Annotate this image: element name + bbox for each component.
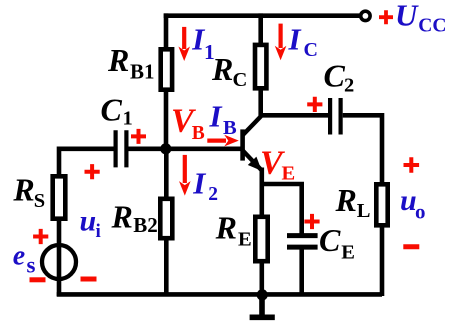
svg-text:R: R bbox=[107, 42, 129, 78]
wire input: C1 left plate to left corner and down to RS bbox=[59, 147, 114, 177]
current arrow IC bbox=[279, 24, 283, 48]
wire left branch: top rail down to RB1 bbox=[164, 13, 169, 50]
svg-text:E: E bbox=[282, 163, 296, 185]
resistor RL bbox=[376, 184, 387, 225]
svg-text:C: C bbox=[319, 222, 341, 258]
wire RL to bottom rail bbox=[380, 226, 385, 297]
transistor Q1 emitter lead bbox=[243, 151, 262, 171]
transistor Q1 collector lead bbox=[243, 116, 261, 135]
plus sign at C2 bbox=[307, 97, 322, 112]
wire RS to es source bbox=[57, 219, 62, 248]
plus sign es top bbox=[33, 229, 48, 244]
current arrow IB bbox=[207, 139, 226, 143]
svg-text:L: L bbox=[357, 200, 371, 222]
wire top rail from RB1 branch to +Ucc terminal bbox=[164, 13, 360, 18]
svg-text:2: 2 bbox=[208, 184, 218, 205]
plus sign uo top bbox=[404, 157, 420, 173]
node B junction dot bbox=[160, 143, 171, 154]
source es circle bbox=[42, 245, 76, 279]
plus sign at CE bbox=[304, 214, 319, 229]
wire node B down to RB2 bbox=[164, 149, 169, 200]
terminal +Ucc circle bbox=[361, 11, 370, 20]
svg-text:E: E bbox=[238, 228, 252, 250]
svg-text:CC: CC bbox=[418, 15, 446, 36]
svg-text:s: s bbox=[27, 253, 36, 278]
svg-text:o: o bbox=[415, 199, 426, 223]
wire RB2 to bottom rail bbox=[164, 238, 169, 296]
svg-text:e: e bbox=[13, 240, 25, 271]
svg-text:C: C bbox=[304, 39, 318, 61]
transistor Q1 base bar bbox=[240, 129, 245, 160]
svg-text:B1: B1 bbox=[130, 60, 155, 84]
capacitor C2 plates bbox=[330, 98, 341, 135]
wire RB1 to node B bbox=[164, 89, 169, 151]
capacitor CE plates bbox=[287, 236, 318, 248]
plus sign ui top bbox=[85, 164, 100, 179]
resistor RB2 bbox=[160, 199, 172, 238]
current arrow I1 bbox=[182, 27, 186, 49]
wire emitter branch down to RE bbox=[259, 184, 264, 216]
plus sign at Ucc bbox=[379, 10, 393, 24]
svg-text:R: R bbox=[215, 209, 237, 245]
wire RE to bottom rail bbox=[259, 262, 264, 297]
svg-text:1: 1 bbox=[204, 40, 215, 64]
svg-text:R: R bbox=[12, 171, 34, 207]
svg-text:C: C bbox=[101, 91, 123, 127]
svg-text:1: 1 bbox=[123, 107, 133, 129]
wire C1 right plate to node B bbox=[129, 147, 167, 152]
wire through es to bottom rail bbox=[57, 246, 62, 296]
minus sign uo bottom bbox=[403, 244, 419, 249]
svg-text:I: I bbox=[288, 22, 302, 57]
svg-text:R: R bbox=[111, 198, 133, 234]
wire RC to collector bbox=[258, 88, 263, 118]
svg-text:i: i bbox=[96, 221, 101, 242]
ground symbol bbox=[250, 294, 275, 318]
svg-text:I: I bbox=[192, 165, 206, 200]
resistor RC bbox=[255, 45, 266, 88]
wire collector to C2 left plate bbox=[259, 113, 329, 118]
wire CE to bottom rail bbox=[299, 249, 304, 297]
plus sign at C1 top bbox=[131, 129, 146, 144]
svg-text:2: 2 bbox=[344, 75, 354, 97]
resistor RS bbox=[53, 176, 66, 218]
capacitor C1 plates bbox=[116, 130, 127, 167]
wire top rail down to RC bbox=[258, 13, 263, 45]
svg-text:I: I bbox=[209, 99, 223, 134]
minus sign ui bottom bbox=[81, 277, 97, 282]
wire bottom rail bbox=[57, 292, 382, 297]
wire base: node B to transistor base bbox=[164, 147, 241, 152]
wire emitter down and branch to CE bbox=[262, 168, 302, 235]
svg-text:S: S bbox=[34, 190, 45, 212]
current arrow I2 bbox=[183, 155, 187, 183]
minus sign es bottom bbox=[30, 277, 46, 282]
svg-text:C: C bbox=[233, 69, 248, 91]
svg-text:B: B bbox=[192, 123, 205, 144]
svg-text:E: E bbox=[341, 241, 355, 263]
svg-text:C: C bbox=[324, 58, 346, 94]
ground junction dot bbox=[257, 289, 268, 300]
transistor Q1 emitter arrow bbox=[248, 157, 262, 171]
resistor RE bbox=[255, 217, 267, 261]
svg-text:R: R bbox=[335, 182, 357, 218]
svg-text:u: u bbox=[80, 205, 97, 238]
wire C2 right plate to right corner down to RL bbox=[343, 113, 382, 184]
svg-text:B2: B2 bbox=[133, 213, 158, 237]
resistor RB1 bbox=[161, 49, 172, 89]
svg-text:U: U bbox=[395, 0, 419, 32]
